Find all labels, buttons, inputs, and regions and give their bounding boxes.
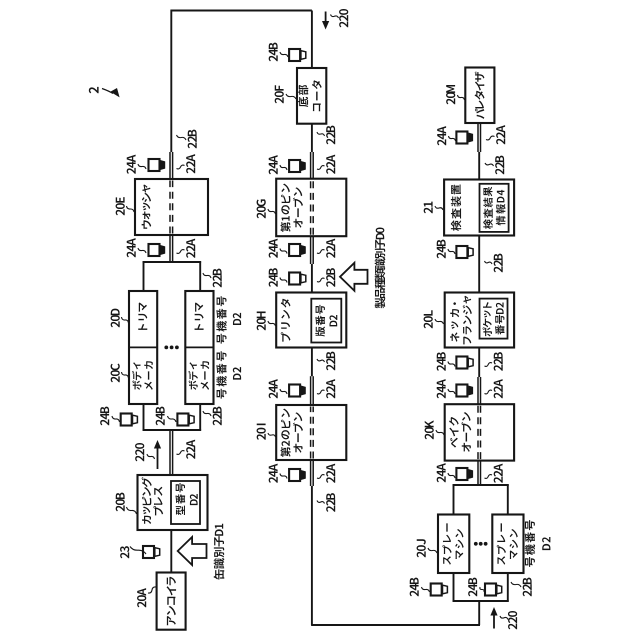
- text スプレー マシン box2: [497, 556, 505, 565]
- label 21 with leader: [424, 207, 433, 213]
- text スプレー マシン box1: [443, 556, 451, 565]
- data box ポケット番号 D2 in 20L: [480, 299, 508, 339]
- camera 23 above line: [143, 546, 154, 558]
- label 20H with leader: [257, 324, 266, 330]
- label 220 with leader: [135, 455, 144, 461]
- label 20B with leader: [116, 505, 125, 511]
- camera 24A right of 20G: [289, 160, 300, 172]
- label 20J with leader: [417, 551, 426, 557]
- ellipsis dots between spray boxes: [474, 542, 478, 546]
- wire 22A cupping press to fork, double line: [169, 430, 171, 475]
- machine 20J spray machine box 1: [438, 515, 469, 574]
- wire 22B 20I to 20H: [311, 348, 313, 377]
- merge bar out of spray group: [453, 484, 509, 486]
- direction arrow 220 row1: [157, 446, 159, 469]
- branch wire to spray 1: [453, 573, 455, 602]
- label 22B with leader: [494, 365, 503, 371]
- text トリマ box1: [138, 324, 147, 330]
- text カッピング プレス in 20B: [142, 516, 151, 524]
- text アンコイラ in 20A: [167, 616, 176, 625]
- label 20K with leader: [425, 433, 434, 439]
- text 底部 コータ in 20F: [298, 97, 308, 107]
- text ウォッシャ in 20E: [142, 220, 152, 229]
- label 24A with leader: [269, 477, 278, 483]
- left wrap wire down to row 3: [311, 624, 480, 626]
- wire 22A left of 20I, double line: [310, 460, 312, 486]
- dashed conveyor inside bake oven: [477, 406, 479, 459]
- label 22B with leader: [326, 506, 335, 512]
- label 220 with leader: [339, 21, 348, 27]
- label 22B with leader: [494, 266, 503, 272]
- label 22A with leader: [496, 138, 505, 144]
- camera 24B before necker: [456, 357, 467, 369]
- wire 22A into 20G, double line: [310, 152, 312, 179]
- wire 22A into palletizer, double line: [477, 123, 479, 152]
- merge bar out of bodymaker group: [143, 261, 202, 263]
- machine 20B cupping press box: [138, 475, 208, 530]
- label 20C with leader: [111, 376, 120, 382]
- camera 24B after necker: [456, 246, 467, 258]
- label 22B with leader: [326, 364, 335, 370]
- label 22A with leader: [326, 168, 335, 174]
- wire 22B 20G to 20H: [311, 264, 313, 293]
- branch wire from trimmer 2: [199, 261, 201, 291]
- label 22B after group with leader: [213, 281, 222, 287]
- text プリンタ in 20H: [281, 332, 291, 341]
- label 22A with leader: [326, 392, 335, 398]
- label 24A with leader: [437, 392, 446, 398]
- wire 22B necker to inspection: [478, 236, 480, 293]
- wire 22A left of 20G, double line: [310, 236, 312, 264]
- label 22B with leader: [326, 138, 335, 144]
- label 24A with leader: [437, 139, 446, 145]
- branch wire from spray 2: [507, 484, 509, 514]
- label 24B with leader: [437, 365, 446, 371]
- machine bodymaker+trimmer box 2: [185, 291, 213, 404]
- label 24A with leader: [269, 392, 278, 398]
- text 第1のピン オーブン in 20G: [280, 222, 290, 232]
- label 24B with leader: [410, 590, 419, 596]
- branch wire to bodymaker 2: [199, 404, 201, 431]
- machine 20F bottom coater box: [297, 68, 326, 124]
- machine 20L necker flanger box: [445, 293, 514, 348]
- camera 24B on spray branch 1: [431, 584, 442, 596]
- label 22A with leader: [186, 167, 195, 173]
- label 号機番号 D2 under bodymaker: [217, 389, 227, 399]
- camera 24A left of 20G: [289, 244, 300, 256]
- text ベイク オーブン in 20K: [450, 438, 458, 448]
- label 20L with leader: [424, 322, 433, 328]
- text 第2のピン オーブン in 20I: [280, 447, 290, 457]
- wire 22B bake oven to necker: [478, 348, 480, 378]
- machine spray machine box 2: [492, 515, 523, 574]
- fork bar into bodymaker group: [143, 429, 202, 431]
- machine 20M palletizer box: [465, 68, 494, 124]
- inspection device 21 box: [444, 180, 514, 236]
- label 20M with leader: [446, 98, 455, 104]
- label 22A with leader: [326, 252, 335, 258]
- label 24B with leader: [100, 419, 109, 425]
- label 220 with leader: [508, 623, 517, 629]
- camera 24A left of 20I: [289, 469, 300, 481]
- label 22A with leader: [494, 392, 503, 398]
- data box 検査結果 情報D4 in 21: [480, 184, 509, 232]
- dashed conveyor inside 20G: [310, 180, 312, 235]
- wire 22B wrap to 20F: [311, 11, 313, 69]
- camera 24A before palletizer: [456, 132, 467, 144]
- text ネッカ・ フランジャ in 20L: [450, 332, 459, 341]
- label 24B with leader: [156, 419, 165, 425]
- machine 20I second pin oven box: [276, 405, 346, 460]
- label 24B with leader: [269, 55, 278, 61]
- label 号機番号 D2 under trimmer: [217, 334, 227, 344]
- wire wrap to spray fork: [478, 601, 480, 625]
- branch wire from spray 1: [453, 484, 455, 514]
- label 22A with leader: [494, 477, 503, 483]
- branch wire to bodymaker 1: [143, 404, 145, 431]
- direction arrow 220 row2: [325, 12, 327, 24]
- label 号機番号 D2 under spray machines: [525, 557, 535, 567]
- label 24A with leader: [269, 252, 278, 258]
- label 22B with leader: [495, 168, 504, 174]
- dashed conveyor inside 20I: [310, 407, 312, 459]
- wire 22A after bake oven, double line: [477, 377, 479, 404]
- wire 22A fork to washer, double line: [169, 235, 171, 262]
- ellipsis dots between group boxes: [164, 346, 168, 350]
- label 22A with leader: [186, 252, 195, 258]
- label 23 with leader: [120, 552, 129, 558]
- wire 22B washer to right wrap: [170, 10, 172, 152]
- machine 20C/20D bodymaker+trimmer box 1: [129, 291, 157, 404]
- camera 24B on spray branch 2: [485, 584, 496, 596]
- machine 20G first pin oven box: [276, 179, 346, 237]
- wire 22A after washer, double line: [169, 152, 171, 179]
- hollow arrow can identifier D1: [178, 537, 207, 565]
- label 22B spray branch with leader: [523, 590, 532, 596]
- fork bar into spray group: [453, 600, 509, 602]
- machine 20H printer box: [276, 293, 346, 348]
- wire 22B 20I to left wrap: [311, 486, 313, 625]
- wire 22B inspection to palletizer segment: [478, 152, 480, 180]
- label 20E with leader: [116, 209, 125, 215]
- camera 24A after washer: [149, 159, 160, 171]
- branch wire to spray 2: [507, 573, 509, 602]
- camera 24B on branch 2: [177, 414, 188, 426]
- label 24A with leader: [437, 476, 446, 482]
- label 20I with leader: [257, 434, 266, 440]
- label 24B with leader: [437, 252, 446, 258]
- label 20G with leader: [257, 212, 266, 218]
- wire 22A into bake oven, double line: [477, 461, 479, 485]
- text ボディ メーカ box1: [132, 380, 141, 389]
- label 20F with leader: [275, 97, 284, 103]
- wire 22B uncoiler to cupping press: [170, 530, 172, 573]
- camera 24A right of 20I: [289, 385, 300, 397]
- camera 24A before bake oven: [456, 468, 467, 480]
- wire 22A into 20I, double line: [310, 376, 312, 405]
- direction arrow 220 row3: [493, 613, 495, 629]
- camera 24B on branch 1: [121, 414, 132, 426]
- label 22A with leader: [326, 477, 335, 483]
- data box 型番号 D2 in 20B: [171, 481, 200, 524]
- text パレタイザ in 20M: [475, 109, 484, 119]
- label 24B with leader: [269, 281, 278, 287]
- caption 缶識別子D1: [214, 569, 225, 579]
- camera 24B before 20F: [289, 49, 300, 61]
- figure number 2 with leader arrow: [89, 87, 99, 93]
- label 24A with leader: [127, 168, 136, 174]
- label 22B with leader: [326, 281, 335, 287]
- label 24A with leader: [269, 168, 278, 174]
- right wrap wire down to row 2: [171, 10, 312, 12]
- text トリマ box2: [195, 324, 204, 330]
- label 22B with leader: [188, 142, 197, 148]
- label 24B with leader: [468, 590, 477, 596]
- label 24A with leader: [127, 251, 136, 257]
- text ボディ メーカ box2: [189, 380, 198, 389]
- label 20A with leader: [137, 601, 146, 607]
- text 検査装置 in 21: [451, 220, 461, 231]
- machine 20A uncoiler box: [157, 573, 186, 630]
- wire 22B 20F to 20G: [311, 124, 313, 152]
- label 20D with leader: [111, 321, 120, 327]
- machine 20K bake oven box: [445, 404, 514, 460]
- camera 24A after bake oven: [456, 385, 467, 397]
- caption 製品種類識別子D0: [375, 298, 386, 309]
- label 22B branch with leader: [213, 419, 222, 425]
- machine 20E washer box: [135, 179, 208, 235]
- dashed conveyor inside washer: [169, 181, 171, 234]
- data box 版番号 D2 in 20H: [311, 299, 341, 343]
- branch wire from trimmer 1: [143, 261, 145, 291]
- camera 24B between 20H and 20G: [289, 273, 300, 285]
- camera 24A before washer: [149, 244, 160, 256]
- label 22A with leader: [186, 453, 195, 459]
- hollow arrow product type identifier D0: [340, 263, 368, 291]
